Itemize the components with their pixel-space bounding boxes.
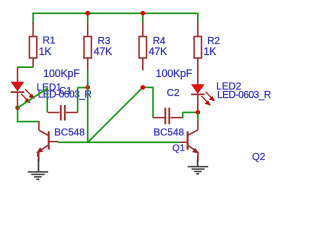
svg-text:1K: 1K xyxy=(39,46,52,58)
transistor Q1 (left, BC548, mirrored) xyxy=(38,121,59,157)
svg-text:47K: 47K xyxy=(149,46,168,58)
svg-text:BC548: BC548 xyxy=(154,128,185,139)
wire LED1 cathode down xyxy=(17,106,19,122)
wire C1 right column up xyxy=(77,88,79,113)
svg-text:C1: C1 xyxy=(59,86,72,97)
node junction rail-R3 xyxy=(85,11,90,16)
svg-text:LED-0603_R: LED-0603_R xyxy=(217,90,271,101)
svg-text:Q2: Q2 xyxy=(252,152,266,163)
node junction R4 xyxy=(141,85,146,90)
resistor R1 xyxy=(29,23,36,67)
capacitor C1 xyxy=(48,105,78,121)
wire C2 to LED2 node xyxy=(183,111,198,113)
transistor Q2 emitter arrow xyxy=(192,148,199,154)
LED D1 emission arrows xyxy=(21,89,34,102)
wire C1 column to R3 node xyxy=(78,87,88,89)
svg-text:1K: 1K xyxy=(204,46,217,58)
wire jog R1 to LED1 xyxy=(18,66,34,68)
wire drop to R2 xyxy=(197,13,199,24)
LED D2 emission arrows xyxy=(201,92,214,105)
wire C2 left column xyxy=(152,87,154,118)
wire diagonal LED1 to C1 column xyxy=(18,88,48,107)
svg-text:47K: 47K xyxy=(94,46,113,58)
wire drop to R1 xyxy=(32,13,34,24)
svg-text:R1: R1 xyxy=(43,36,56,47)
capacitor C2 xyxy=(153,108,183,125)
wire R3 long drop to base rail xyxy=(87,70,89,142)
wire C1 left column xyxy=(46,88,48,113)
wire drop to R4 xyxy=(142,13,144,23)
wire LED1 anode lead xyxy=(17,67,19,82)
node LED1 cathode junction xyxy=(15,106,20,111)
wire diagonal base rail to R4 node xyxy=(88,87,143,142)
node junction rail-R4 xyxy=(141,11,146,16)
svg-text:C2: C2 xyxy=(167,88,180,99)
wire C2 right jog up xyxy=(182,112,184,118)
transistor Q2 (right, BC548) xyxy=(179,121,198,162)
wire base rail Q1-Q2 xyxy=(58,141,180,143)
svg-text:100KpF: 100KpF xyxy=(156,68,193,80)
resistor R3 xyxy=(84,23,91,71)
ground (right) xyxy=(188,155,209,174)
wire R4 node to C2 xyxy=(143,86,153,88)
transistor Q1 emitter arrow xyxy=(36,147,43,153)
wire LED2 node down xyxy=(197,112,199,121)
svg-text:100KpF: 100KpF xyxy=(43,68,80,80)
svg-text:R4: R4 xyxy=(153,36,166,47)
resistor R4 xyxy=(139,23,146,71)
wire top power rail xyxy=(33,12,198,14)
node junction R3-C1 xyxy=(85,85,90,90)
svg-text:BC548: BC548 xyxy=(54,128,85,139)
svg-text:Q1: Q1 xyxy=(172,143,185,154)
LED D1 symbol xyxy=(11,82,24,105)
wire drop to R3 xyxy=(87,13,89,23)
resistor R2 xyxy=(194,23,201,85)
wire to Q1 collector xyxy=(17,121,39,123)
node LED2 cathode junction xyxy=(196,110,201,115)
ground (left) xyxy=(28,152,49,180)
LED D2 symbol xyxy=(191,85,204,111)
